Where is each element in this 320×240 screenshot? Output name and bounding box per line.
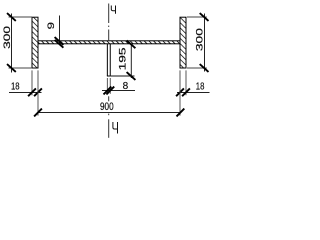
svg-text:8: 8	[123, 81, 129, 92]
dimension 300 left	[2, 13, 32, 72]
svg-text:300: 300	[195, 28, 205, 51]
svg-text:900: 900	[100, 101, 114, 113]
dimension 18 left (flange thickness)	[9, 70, 42, 96]
svg-text:195: 195	[118, 47, 129, 70]
horizontal plate (top strip)	[38, 41, 180, 44]
centerline y axis (dash-dot)	[108, 4, 110, 138]
svg-text:300: 300	[2, 26, 12, 49]
dimension 9 (strip thickness)	[46, 16, 63, 48]
left flange plate	[32, 17, 38, 68]
dimension 300 right	[187, 13, 209, 72]
web (vertical stiffener)	[107, 44, 111, 76]
right flange plate	[180, 17, 186, 68]
dimension 18 right (flange thickness)	[176, 70, 209, 96]
svg-text:18: 18	[196, 82, 205, 93]
node y (top axis label)	[111, 6, 115, 14]
svg-text:9: 9	[46, 22, 57, 29]
node y (bottom axis label)	[113, 122, 118, 134]
dimension 900 (overall span)	[34, 70, 184, 116]
dimension 195 (web height)	[111, 40, 136, 80]
svg-text:18: 18	[11, 82, 20, 93]
dimension 8 (web thickness)	[102, 78, 135, 94]
